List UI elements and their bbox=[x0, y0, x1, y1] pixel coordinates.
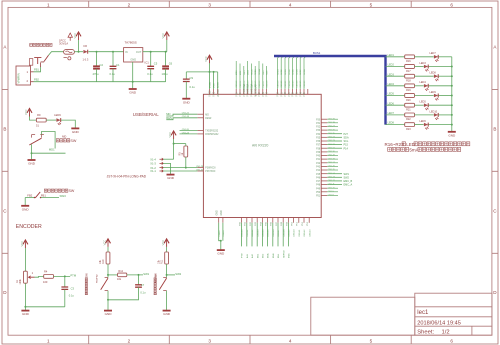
wire pot bottom to ground bbox=[24, 283, 26, 310]
svg-text:P43: P43 bbox=[316, 167, 321, 169]
svg-text:C5: C5 bbox=[154, 62, 158, 66]
svg-text:SDA: SDA bbox=[344, 136, 349, 139]
svg-text:CN1-22: CN1-22 bbox=[182, 113, 190, 115]
svg-text:GND: GND bbox=[129, 91, 137, 95]
svg-text:CN3-15: CN3-15 bbox=[255, 80, 257, 88]
svg-text:LED4: LED4 bbox=[420, 81, 427, 84]
wire VCC down bbox=[209, 63, 211, 72]
wire net PTM bbox=[241, 223, 243, 247]
svg-text:P48: P48 bbox=[316, 185, 321, 187]
wire net MD0 bbox=[235, 61, 237, 89]
resistor bbox=[184, 146, 188, 157]
wire AVDD bbox=[217, 72, 219, 89]
capacitor bbox=[162, 66, 169, 68]
pin PC6MSBGA (top) bbox=[250, 89, 252, 94]
wire net LED3 to bus bbox=[285, 56, 287, 89]
wire net MD1 bbox=[239, 64, 241, 90]
svg-text:C7: C7 bbox=[141, 283, 145, 287]
svg-text:CN3-17: CN3-17 bbox=[263, 80, 265, 88]
svg-text:Sheet:: Sheet: bbox=[417, 329, 434, 335]
svg-text:EMC_B: EMC_B bbox=[344, 180, 353, 183]
pin PC3 (top) bbox=[262, 89, 264, 94]
wire net SRD0 bbox=[254, 66, 256, 89]
svg-text:FB1/FB2: FB1/FB2 bbox=[155, 274, 157, 283]
pin P36TXD0 (left) bbox=[197, 170, 203, 172]
VCC for SW2 bbox=[161, 239, 169, 247]
wire bus to R22 bbox=[386, 114, 405, 116]
pin TXD5RS232 (left) bbox=[197, 129, 203, 131]
svg-text:SW: SW bbox=[68, 189, 74, 193]
pushbutton SW3 bbox=[34, 192, 42, 198]
wire C9 to ground bbox=[185, 82, 187, 99]
pin PB6 (top, unconnected stub) bbox=[307, 89, 309, 94]
wire R12 to SW1 net bbox=[127, 274, 143, 276]
svg-text:CN3-18: CN3-18 bbox=[267, 80, 269, 88]
resistor bbox=[44, 275, 54, 279]
wire stub bbox=[327, 187, 338, 189]
wire R4 to PTM bbox=[54, 275, 71, 277]
pin P31 (right) bbox=[321, 122, 327, 124]
svg-text:LED7: LED7 bbox=[300, 68, 302, 74]
capacitor bbox=[61, 287, 68, 289]
svg-text:0.1u: 0.1u bbox=[147, 72, 153, 76]
ground under C9 bbox=[182, 99, 190, 105]
wire wiper to R4 bbox=[35, 275, 44, 278]
svg-text:LED5: LED5 bbox=[420, 101, 427, 104]
svg-text:CN3-14: CN3-14 bbox=[251, 80, 253, 88]
svg-text:PTM: PTM bbox=[242, 253, 244, 258]
pin P42 (right) bbox=[321, 162, 327, 164]
resistor R22 bbox=[405, 113, 415, 117]
svg-text:CN2-27: CN2-27 bbox=[328, 126, 336, 128]
svg-text:P42: P42 bbox=[316, 163, 321, 165]
svg-text:CN2-14: CN2-14 bbox=[328, 173, 336, 175]
wire to ground bbox=[220, 241, 222, 250]
svg-text:1: 1 bbox=[47, 339, 50, 344]
capacitor bbox=[93, 66, 100, 68]
LED LED8 bbox=[434, 74, 439, 81]
pin P53 (bottom) bbox=[308, 218, 310, 223]
wire R18 to LED bbox=[415, 75, 434, 77]
svg-text:X1-2: X1-2 bbox=[150, 166, 156, 170]
supply arrow (hollow) bbox=[68, 33, 72, 41]
ground under regulator bbox=[129, 89, 137, 95]
resistor R18 bbox=[405, 74, 415, 78]
wire net SCL bbox=[327, 140, 342, 142]
svg-text:CN2-26: CN2-26 bbox=[328, 129, 336, 131]
pin P36RXD0 (left) bbox=[197, 167, 203, 169]
svg-text:2: 2 bbox=[128, 2, 131, 7]
wire regulator GND down bbox=[132, 62, 134, 88]
svg-text:P50: P50 bbox=[316, 192, 321, 194]
LED LED3 bbox=[424, 65, 429, 72]
wire R17 to LED bbox=[415, 66, 424, 68]
wire X1-2 to P36RXD0 bbox=[163, 167, 197, 169]
svg-text:C2: C2 bbox=[100, 63, 104, 67]
pin P45 (bottom) bbox=[267, 218, 269, 223]
ground for LED array bbox=[448, 132, 456, 138]
svg-text:CN3-42: CN3-42 bbox=[304, 229, 306, 237]
svg-text:LED7: LED7 bbox=[430, 52, 437, 55]
wire LED to common bbox=[429, 66, 452, 68]
svg-text:P33: P33 bbox=[316, 130, 321, 132]
wire stub bbox=[327, 158, 338, 160]
svg-text:CN3-20: CN3-20 bbox=[281, 80, 283, 88]
wire stub bbox=[327, 151, 338, 153]
svg-text:R16~R23: R16~R23 bbox=[385, 142, 405, 147]
svg-text:CN3-26: CN3-26 bbox=[304, 80, 306, 88]
svg-text:P36TXD0: P36TXD0 bbox=[205, 171, 216, 173]
resistor bbox=[118, 273, 127, 277]
svg-text:4: 4 bbox=[289, 2, 292, 7]
svg-text:AVDD: AVDD bbox=[217, 82, 220, 88]
wire LED to common bbox=[439, 114, 452, 116]
svg-text:CN2-15: CN2-15 bbox=[328, 169, 336, 171]
svg-text:P36: P36 bbox=[316, 141, 321, 143]
svg-text:LED4: LED4 bbox=[289, 68, 291, 74]
wire LED to common bbox=[429, 124, 452, 126]
wire R20 to LED bbox=[415, 95, 434, 97]
svg-text:PE0: PE0 bbox=[278, 92, 280, 97]
svg-text:GND: GND bbox=[22, 207, 30, 211]
svg-text:R17: R17 bbox=[406, 70, 411, 73]
svg-text:LED9: LED9 bbox=[54, 113, 61, 117]
wire switch to ground bbox=[166, 291, 168, 310]
wire R5 top bbox=[185, 144, 187, 146]
svg-text:CN2-13: CN2-13 bbox=[328, 177, 336, 179]
svg-text:6: 6 bbox=[450, 339, 453, 344]
svg-text:P08: P08 bbox=[236, 92, 238, 97]
svg-text:LED3: LED3 bbox=[285, 68, 287, 74]
svg-text:P38: P38 bbox=[316, 148, 321, 150]
svg-text:6: 6 bbox=[450, 2, 453, 7]
svg-text:X1-4: X1-4 bbox=[150, 157, 156, 161]
svg-text:CN3-10: CN3-10 bbox=[236, 80, 238, 88]
svg-text:GND: GND bbox=[130, 58, 136, 62]
svg-text:CN1-28: CN1-28 bbox=[196, 166, 204, 168]
svg-text:FB2: FB2 bbox=[34, 78, 39, 82]
svg-text:0.1u: 0.1u bbox=[69, 294, 75, 298]
svg-text:CN2-21: CN2-21 bbox=[328, 147, 336, 149]
wire ground rail under caps bbox=[97, 81, 166, 83]
bus BUS1 bbox=[274, 56, 386, 125]
wire SW3 left bbox=[25, 197, 34, 199]
junction bbox=[173, 143, 175, 145]
svg-text:OUT: OUT bbox=[136, 50, 142, 54]
svg-text:RES#: RES# bbox=[205, 118, 212, 120]
svg-text:C3: C3 bbox=[71, 287, 75, 291]
wire net SW2 bbox=[327, 176, 342, 178]
svg-text:CN3-21: CN3-21 bbox=[285, 80, 287, 88]
svg-text:MD: MD bbox=[62, 134, 66, 138]
wire net LED2 to bus bbox=[281, 56, 283, 89]
wire supply tap bbox=[78, 40, 80, 52]
svg-text:LED8: LED8 bbox=[388, 122, 395, 125]
wire switch to ground bbox=[107, 291, 109, 310]
wire net LED9 bbox=[247, 61, 249, 89]
svg-text:CN3-43: CN3-43 bbox=[309, 229, 311, 237]
svg-text:VCC: VCC bbox=[161, 240, 165, 246]
svg-text:X1-1: X1-1 bbox=[150, 169, 156, 173]
wire stub bbox=[327, 194, 338, 196]
svg-text:0.1u: 0.1u bbox=[140, 291, 146, 295]
connector pin X1-4 bbox=[160, 158, 164, 160]
junction bbox=[78, 51, 80, 53]
pin P40 (bottom) bbox=[241, 218, 243, 223]
resistor bbox=[165, 252, 169, 264]
capacitor bbox=[147, 66, 154, 68]
svg-text:MD: MD bbox=[205, 114, 209, 116]
pin P49 (right) bbox=[321, 187, 327, 189]
pin P40 (right) bbox=[321, 155, 327, 157]
pin P38 (right) bbox=[321, 147, 327, 149]
wire to C3 bbox=[64, 276, 66, 287]
junction bbox=[132, 81, 134, 83]
pin P51 (bottom) bbox=[298, 218, 300, 223]
junction bbox=[166, 274, 168, 276]
pin PC7MSBGA (top) bbox=[243, 89, 245, 94]
ground under SW1 bbox=[104, 311, 112, 317]
svg-text:USB/SERIAL: USB/SERIAL bbox=[133, 112, 159, 117]
wire X1-3 to ground bbox=[163, 163, 170, 174]
svg-text:LED5: LED5 bbox=[293, 68, 295, 74]
pin MD (left) bbox=[197, 113, 203, 115]
wire switch to MD1 net bbox=[42, 132, 56, 149]
wire bus to R17 bbox=[386, 66, 405, 68]
svg-text:ENCODER: ENCODER bbox=[16, 224, 42, 230]
pushbutton SW2 bbox=[159, 278, 166, 291]
junction bbox=[24, 306, 26, 308]
wire fuse to D6 bbox=[74, 51, 83, 53]
wire R22 to LED bbox=[415, 114, 434, 116]
LED LED5 bbox=[424, 103, 429, 110]
svg-text:SRD0: SRD0 bbox=[255, 69, 257, 75]
wire to R5 bbox=[174, 143, 186, 145]
svg-text:DVDD: DVDD bbox=[210, 81, 212, 88]
wire C7 to switch ground bbox=[108, 287, 139, 300]
svg-text:R10: R10 bbox=[102, 259, 105, 264]
wire net P15 bbox=[327, 144, 342, 146]
svg-text:LED2: LED2 bbox=[281, 68, 283, 74]
wire net SRCK bbox=[250, 64, 252, 90]
svg-text:100u: 100u bbox=[162, 72, 168, 76]
junction bbox=[220, 240, 222, 242]
wire VCC to pot bbox=[24, 248, 26, 271]
svg-text:LED3: LED3 bbox=[420, 62, 427, 65]
junction bbox=[138, 274, 140, 276]
wire net EN2 bbox=[261, 223, 263, 247]
svg-text:R19: R19 bbox=[406, 89, 411, 92]
svg-text:GND: GND bbox=[221, 210, 223, 215]
wire C6 to rail bbox=[165, 69, 167, 82]
wire VCC to rail bbox=[166, 40, 168, 52]
svg-text:VCC: VCC bbox=[214, 92, 216, 97]
wire R21 to LED bbox=[415, 104, 424, 106]
svg-text:GND: GND bbox=[183, 100, 191, 104]
wire stub bbox=[327, 155, 338, 157]
pin P46 (bottom) bbox=[272, 218, 274, 223]
svg-text:CN2-29: CN2-29 bbox=[328, 118, 336, 120]
svg-text:LED10: LED10 bbox=[430, 110, 438, 113]
wire to C9 bbox=[185, 72, 187, 79]
svg-text:LED3: LED3 bbox=[388, 73, 395, 76]
wire net SW3 bbox=[243, 66, 245, 89]
wire from X2 pin1 to switch bbox=[34, 67, 41, 72]
wire ground rail from X2 pin2 bbox=[34, 81, 97, 83]
pin P49 (bottom) bbox=[287, 218, 289, 223]
pin P06 (top) bbox=[239, 89, 241, 94]
svg-text:SW1: SW1 bbox=[143, 272, 149, 276]
svg-text:CN1-20: CN1-20 bbox=[182, 129, 190, 131]
svg-text:R9: R9 bbox=[37, 113, 41, 117]
pin P44 (right) bbox=[321, 169, 327, 171]
pin P35 (right) bbox=[321, 136, 327, 138]
pin GND (bottom) bbox=[218, 218, 220, 223]
svg-text:CN3-24: CN3-24 bbox=[296, 80, 298, 88]
wire stub bbox=[327, 162, 338, 164]
svg-text:LED9: LED9 bbox=[248, 69, 250, 75]
wire ground rail encoder bbox=[25, 306, 64, 308]
svg-text:FB1: FB1 bbox=[41, 194, 46, 198]
svg-text:CN2-11: CN2-11 bbox=[328, 184, 336, 186]
svg-text:P32: P32 bbox=[316, 127, 321, 129]
svg-text:CN2-16: CN2-16 bbox=[328, 166, 336, 168]
LED LED10 bbox=[434, 113, 439, 120]
svg-text:1/2: 1/2 bbox=[442, 329, 450, 335]
svg-text:GND: GND bbox=[72, 130, 80, 134]
pin PB0 (top) bbox=[284, 89, 286, 94]
svg-text:P47: P47 bbox=[316, 181, 321, 183]
junction bbox=[165, 51, 167, 53]
wire resistor to node bbox=[166, 264, 168, 278]
wire to C2 bbox=[96, 52, 98, 67]
VCC for SW1 bbox=[102, 239, 110, 247]
wire net LED5 to bus bbox=[293, 56, 295, 89]
VCC supply arrow after fuse bbox=[73, 32, 81, 40]
ground under potentiometer bbox=[21, 311, 29, 317]
svg-text:CN3-41: CN3-41 bbox=[299, 229, 301, 237]
toggle switch S2 bbox=[29, 55, 48, 67]
wire stub bbox=[327, 165, 338, 167]
connector pin X1-2 bbox=[160, 166, 164, 168]
wire bus to R21 bbox=[386, 104, 405, 106]
svg-text:R20: R20 bbox=[406, 99, 411, 102]
pin P51 (right) bbox=[321, 194, 327, 196]
pin P48 (right) bbox=[321, 184, 327, 186]
svg-text:PC4: PC4 bbox=[267, 91, 269, 96]
junction bbox=[150, 51, 152, 53]
junction bbox=[96, 51, 98, 53]
ground under SW2 bbox=[163, 311, 171, 317]
svg-text:P46: P46 bbox=[316, 177, 321, 179]
wire net ENB bbox=[272, 223, 274, 247]
note text line1 bbox=[385, 142, 470, 147]
junction bbox=[31, 152, 33, 154]
svg-text:VCC3: VCC3 bbox=[210, 90, 212, 97]
svg-text:R4: R4 bbox=[44, 269, 48, 273]
svg-text:PB0: PB0 bbox=[285, 92, 287, 97]
wire bus to R20 bbox=[386, 95, 405, 97]
wire SW3 to ground bbox=[24, 198, 26, 206]
svg-text:CN1-42: CN1-42 bbox=[196, 169, 204, 171]
pin P42 (bottom) bbox=[251, 218, 253, 223]
svg-text:GND: GND bbox=[217, 252, 225, 256]
svg-text:PB5: PB5 bbox=[304, 92, 306, 97]
svg-text:R23: R23 bbox=[406, 128, 411, 131]
pin P43 (bottom) bbox=[256, 218, 258, 223]
svg-text:C1: C1 bbox=[116, 63, 120, 67]
wire X1-1 to P36TXD0 bbox=[163, 170, 197, 172]
svg-text:CN2-28: CN2-28 bbox=[328, 122, 336, 124]
junction bbox=[451, 95, 453, 97]
svg-text:2018/06/14 19:45: 2018/06/14 19:45 bbox=[417, 320, 461, 326]
svg-text:CN2-23: CN2-23 bbox=[328, 140, 336, 142]
svg-text:CN2-20: CN2-20 bbox=[328, 151, 336, 153]
fuse F1 bbox=[64, 50, 75, 60]
wire net P27 bbox=[327, 133, 342, 135]
pin PE1 (top) bbox=[280, 89, 282, 94]
wire to C1 bbox=[112, 52, 114, 67]
svg-text:VCC: VCC bbox=[73, 33, 77, 39]
svg-text:LED8: LED8 bbox=[304, 68, 306, 74]
wire VCC bbox=[213, 72, 215, 89]
svg-text:PB2: PB2 bbox=[293, 92, 295, 97]
wire switch to fuse bbox=[49, 52, 64, 56]
svg-text:PTM: PTM bbox=[70, 274, 76, 278]
svg-text:PE1: PE1 bbox=[281, 92, 283, 97]
wire net EMC_A bbox=[327, 184, 342, 186]
svg-text:P30: P30 bbox=[316, 119, 321, 121]
svg-text:GND: GND bbox=[167, 176, 175, 180]
svg-text:3: 3 bbox=[208, 2, 211, 7]
LED LED4 bbox=[424, 84, 429, 91]
wire to C7 bbox=[138, 275, 140, 285]
pin GND2 (bottom) bbox=[222, 218, 224, 223]
svg-text:FB1/FB2: FB1/FB2 bbox=[97, 274, 99, 283]
pin AVCC0 (top) bbox=[217, 89, 219, 94]
svg-text:EMC_A: EMC_A bbox=[344, 184, 353, 187]
svg-text:LED4: LED4 bbox=[388, 83, 395, 86]
svg-text:GND: GND bbox=[217, 210, 219, 215]
diode D6 bbox=[83, 50, 87, 54]
svg-text:CN3-22: CN3-22 bbox=[289, 80, 291, 88]
wire VCC to resistor bbox=[166, 247, 168, 252]
svg-text:R22: R22 bbox=[406, 118, 411, 121]
resistor R20 bbox=[405, 94, 415, 98]
wire net LED6 to bus bbox=[296, 56, 298, 89]
svg-text:VCC: VCC bbox=[102, 240, 106, 246]
svg-text:VPWRIN: VPWRIN bbox=[17, 73, 21, 84]
svg-text:CN2-10: CN2-10 bbox=[328, 187, 336, 189]
pin P39 (right) bbox=[321, 151, 327, 153]
svg-text:P51: P51 bbox=[316, 196, 321, 198]
svg-text:P14: P14 bbox=[344, 147, 349, 150]
svg-text:1 6.3: 1 6.3 bbox=[83, 58, 89, 62]
resistor R16 bbox=[405, 55, 415, 59]
pin P30 (right) bbox=[321, 118, 327, 120]
label slide switch bbox=[56, 139, 77, 143]
connector pin X1-1 bbox=[160, 170, 164, 172]
wire stub bbox=[327, 126, 338, 128]
svg-text:CN2-17: CN2-17 bbox=[328, 162, 336, 164]
pin P36 (right) bbox=[321, 140, 327, 142]
svg-text:CN2-22: CN2-22 bbox=[328, 144, 336, 146]
connector pin X1-3 bbox=[160, 162, 164, 164]
svg-text:CN2-18: CN2-18 bbox=[328, 158, 336, 160]
wire DVDD bbox=[209, 72, 211, 89]
pin P47 (bottom) bbox=[277, 218, 279, 223]
pin PB4 (top) bbox=[299, 89, 301, 94]
